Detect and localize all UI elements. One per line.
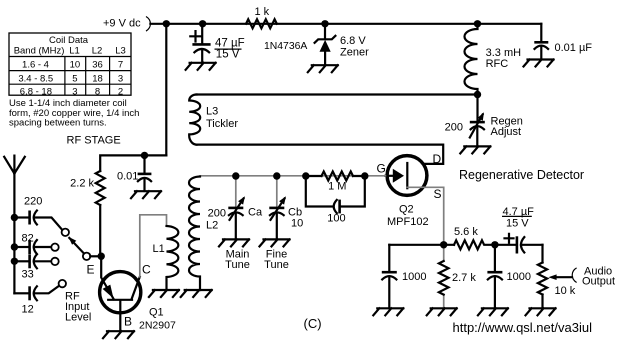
svg-text:RFC: RFC [486, 58, 509, 70]
potentiometer 10k audio [538, 245, 576, 308]
ground (10k pot) [526, 308, 556, 315]
svg-text:Zener: Zener [340, 46, 369, 58]
inductor L2 [189, 177, 218, 291]
wire tank rail [200, 175, 385, 177]
ground (47uF) [186, 63, 216, 70]
svg-text:3.4 - 8.5: 3.4 - 8.5 [18, 73, 53, 84]
svg-text:Coil Data: Coil Data [49, 35, 89, 46]
svg-text:Band (MHz): Band (MHz) [14, 46, 65, 57]
label RF stage [67, 134, 121, 146]
svg-text:10: 10 [291, 217, 303, 229]
svg-text:C: C [142, 262, 151, 276]
node source junction [440, 241, 447, 248]
svg-text:spacing between turns.: spacing between turns. [9, 117, 107, 128]
ground (Q1 base) [103, 331, 134, 338]
svg-text:5: 5 [72, 73, 77, 84]
ground (Ca) [219, 239, 249, 246]
wire collector to L1 [140, 215, 167, 277]
node bus 33 [11, 258, 18, 265]
svg-text:Output: Output [582, 275, 615, 287]
capacitor 0.01uF [534, 24, 592, 60]
wire RF stage top [100, 155, 166, 171]
svg-text:10 k: 10 k [555, 285, 576, 297]
capacitor 1000 second [487, 245, 531, 308]
capacitor 33 [14, 254, 51, 280]
node rail junction A [163, 20, 170, 27]
svg-text:6.8 - 18: 6.8 - 18 [20, 86, 52, 97]
svg-text:Regenerative Detector: Regenerative Detector [459, 168, 584, 182]
pin D label [433, 152, 442, 166]
node RFC top junction [474, 20, 481, 27]
+9V connector brace [146, 17, 150, 32]
svg-text:http://www.qsl.net/va3iul: http://www.qsl.net/va3iul [453, 320, 593, 335]
pin G label [377, 161, 386, 175]
svg-text:L3: L3 [206, 106, 218, 118]
node Cb junction [273, 172, 280, 179]
capacitor 100 [327, 200, 345, 225]
svg-text:36: 36 [92, 60, 103, 71]
coil data table [9, 33, 131, 97]
wire 100 bypass loop left [306, 176, 332, 207]
capacitor 47uF 15V electrolytic [190, 24, 244, 63]
svg-text:D: D [433, 152, 442, 166]
svg-text:Tickler: Tickler [206, 118, 238, 130]
svg-text:Ca: Ca [248, 206, 263, 218]
ground (0.01 RF) [131, 191, 161, 198]
node 47uF junction [199, 20, 206, 27]
svg-text:Q1: Q1 [149, 307, 164, 319]
svg-text:G: G [377, 161, 386, 175]
svg-text:15 V: 15 V [216, 49, 240, 61]
resistor 5.6k [454, 226, 495, 250]
audio output brace [572, 265, 615, 287]
svg-text:3: 3 [118, 73, 123, 84]
node bus 220 [11, 214, 18, 221]
resistor 1k [246, 6, 277, 28]
svg-text:Tune: Tune [225, 259, 250, 271]
capacitor regen adjust 200 [445, 95, 523, 147]
svg-text:2N2907: 2N2907 [139, 319, 176, 331]
svg-text:L2: L2 [92, 46, 103, 57]
wire antenna bus [13, 218, 15, 294]
resistor 2.7k [439, 245, 476, 308]
svg-text:47 µF: 47 µF [215, 37, 245, 49]
wire 2.2k to emitter node [99, 205, 101, 256]
capacitor Ca main tune 200 [208, 176, 263, 271]
svg-text:L2: L2 [206, 219, 218, 231]
label url [453, 320, 593, 335]
pin B label [124, 315, 132, 329]
svg-text:12: 12 [22, 303, 34, 315]
svg-text:7: 7 [118, 60, 123, 71]
capacitor 4.7uF 15V electrolytic [495, 206, 543, 254]
node zener junction [321, 20, 328, 27]
svg-text:1 M: 1 M [328, 180, 346, 192]
node 1M left junction [302, 172, 309, 179]
capacitor Cb fine tune 10 [264, 176, 303, 271]
svg-text:100: 100 [327, 212, 345, 224]
svg-text:Q2: Q2 [399, 204, 414, 216]
svg-text:8: 8 [95, 86, 100, 97]
node 1000 second junction [491, 241, 498, 248]
capacitor 220 [14, 195, 62, 229]
svg-text:Tune: Tune [264, 259, 289, 271]
svg-text:+9 V dc: +9 V dc [103, 17, 141, 29]
ground (L2) [181, 290, 212, 297]
svg-text:2: 2 [118, 86, 123, 97]
ground (Cb) [260, 239, 290, 246]
svg-text:6.8 V: 6.8 V [340, 35, 366, 47]
inductor L1 [153, 226, 179, 290]
wire audio rail [389, 244, 454, 246]
svg-text:200: 200 [208, 207, 226, 219]
svg-text:15 V: 15 V [506, 218, 529, 230]
pin E label [87, 262, 95, 276]
svg-text:Level: Level [65, 311, 91, 323]
svg-text:RF STAGE: RF STAGE [67, 134, 121, 146]
node RFC bottom junction [474, 91, 481, 98]
svg-text:L1: L1 [153, 243, 165, 255]
svg-text:S: S [434, 187, 442, 201]
label regenerative detector [459, 168, 584, 182]
wire rail down to RF stage [165, 24, 167, 156]
ground (2.7k) [427, 308, 457, 315]
pin S label [434, 187, 442, 201]
svg-text:1N4736A: 1N4736A [264, 41, 307, 52]
svg-text:200: 200 [445, 121, 463, 133]
wire Q2 source to audio rail [407, 187, 443, 245]
svg-text:3.3 mH: 3.3 mH [486, 47, 522, 59]
ground (regen) [460, 146, 490, 153]
node +9V supply label [103, 17, 141, 29]
ground (zener) [308, 65, 338, 72]
inductor L3 tickler [189, 95, 238, 145]
svg-text:Adjust: Adjust [491, 126, 522, 138]
ground (0.01uF) [524, 60, 554, 67]
svg-text:3: 3 [72, 86, 77, 97]
svg-text:33: 33 [22, 268, 34, 280]
capacitor 1000 first [382, 245, 427, 308]
resistor 2.2k [70, 171, 105, 205]
svg-text:E: E [87, 262, 95, 276]
svg-text:18: 18 [92, 73, 103, 84]
svg-text:(C): (C) [304, 316, 322, 331]
ground (1000 first) [373, 308, 403, 315]
label coil note [9, 98, 139, 128]
node emitter junction [98, 253, 105, 260]
svg-text:2.7 k: 2.7 k [452, 272, 476, 284]
inductor RFC 3.3mH [465, 24, 522, 95]
antenna [4, 156, 25, 218]
wire +9V rail [150, 23, 541, 25]
svg-text:220: 220 [24, 195, 42, 207]
svg-text:0.01 µF: 0.01 µF [555, 42, 593, 54]
wire L3 bottom to Q2 drain [197, 145, 444, 164]
pin C label [142, 262, 151, 276]
svg-text:B: B [124, 315, 132, 329]
transistor Q1 2N2907 [100, 256, 176, 331]
svg-text:L1: L1 [69, 46, 80, 57]
ground (1000 second) [478, 308, 508, 315]
svg-text:MPF102: MPF102 [387, 216, 429, 228]
svg-text:82: 82 [22, 232, 34, 244]
svg-text:1 k: 1 k [255, 6, 270, 18]
svg-text:L3: L3 [115, 46, 126, 57]
capacitor 82 [14, 232, 51, 254]
transistor Q2 MPF102 [385, 156, 428, 228]
node 1M right junction [361, 172, 368, 179]
wire tickler top rail [197, 93, 478, 95]
svg-text:2.2 k: 2.2 k [70, 178, 94, 190]
node 0.01 junction [141, 152, 148, 159]
diode D1 zener 1N4736A 6.8V [264, 24, 369, 65]
label copyright [304, 316, 322, 331]
svg-text:10: 10 [70, 60, 81, 71]
node Ca junction [232, 172, 239, 179]
capacitor 0.01 RF stage [117, 155, 151, 191]
node bus 82 [11, 243, 18, 250]
resistor 1M [306, 172, 365, 193]
wire 100 bypass loop right [340, 176, 365, 207]
svg-text:1000: 1000 [507, 271, 531, 283]
svg-text:0.01: 0.01 [117, 171, 138, 183]
svg-text:1000: 1000 [402, 271, 426, 283]
svg-text:1.6 - 4: 1.6 - 4 [22, 60, 49, 71]
ground (L1) [149, 290, 179, 297]
capacitor 12 [14, 286, 59, 315]
svg-text:5.6 k: 5.6 k [454, 226, 478, 238]
switch RF input level [51, 229, 101, 324]
